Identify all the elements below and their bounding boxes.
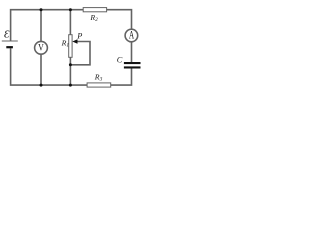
battery thick plate [6, 46, 13, 48]
ammeter U2 circle [125, 29, 138, 42]
wire bottom right segment [111, 68, 132, 85]
wire wiper loop [70, 42, 90, 65]
resistor R3 body [87, 83, 111, 87]
junction dot top R1 [69, 8, 72, 11]
wire left lower segment [11, 48, 88, 85]
junction dot bottom voltmeter [40, 84, 43, 87]
resistor R2 body [83, 8, 106, 12]
wire top left segment [11, 10, 84, 41]
wire R1 bottom branch [69, 57, 71, 85]
wiper arrowhead [72, 39, 77, 44]
junction dot wiper loop [69, 63, 72, 66]
wire top right segment [107, 10, 132, 30]
capacitor C top plate [124, 62, 141, 64]
wire voltmeter top branch [40, 10, 42, 42]
resistor R1 body [69, 35, 72, 58]
svg-text:A: A [129, 30, 134, 42]
wire voltmeter bottom branch [40, 54, 42, 85]
svg-text:P: P [76, 32, 82, 41]
capacitor C bottom plate [124, 66, 141, 68]
svg-text:C: C [117, 55, 123, 64]
wire R1 top branch [69, 10, 71, 35]
svg-text:Ɛ: Ɛ [4, 28, 10, 40]
battery long plate [2, 40, 18, 42]
junction dot top voltmeter [40, 8, 43, 11]
wire ammeter to capacitor [131, 42, 133, 62]
svg-text:V: V [38, 42, 44, 53]
voltmeter U1 circle [35, 41, 48, 54]
junction dot bottom R1 [69, 84, 72, 87]
